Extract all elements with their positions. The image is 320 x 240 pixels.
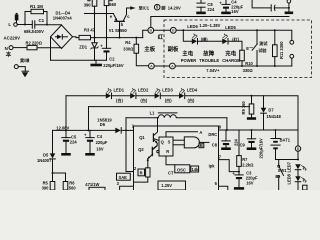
svg-text:LED6: LED6: [187, 24, 198, 29]
svg-text:220μF/16V: 220μF/16V: [103, 63, 124, 68]
resistor R5 390: [50, 182, 55, 191]
zener ZD1: [94, 38, 96, 43]
12V rail: [53, 129, 116, 131]
battery BAT1: [275, 130, 277, 138]
bridge rectifier D1-D4: [51, 25, 73, 49]
bridge plus to R3: [73, 36, 80, 39]
svg-text:L: L: [8, 22, 11, 27]
capacitor C2: [106, 14, 108, 49]
OSC block: [175, 165, 190, 173]
svg-text:(白): (白): [140, 97, 147, 103]
svg-text:试验: 试验: [258, 47, 267, 53]
AND gate: [184, 137, 199, 148]
capacitor C5 224: [65, 130, 67, 137]
svg-text:16V: 16V: [246, 181, 254, 186]
resistor R1 1M: [25, 12, 31, 25]
svg-text:B: B: [200, 143, 203, 148]
svg-text:B: B: [172, 29, 175, 33]
transistor V1 S8550: [115, 20, 125, 22]
svg-text:Ipk: Ipk: [209, 164, 216, 169]
svg-text:1.25V: 1.25V: [161, 183, 172, 188]
svg-text:D6: D6: [100, 122, 106, 127]
svg-text:390: 390: [42, 185, 50, 190]
LED string wire: [66, 95, 106, 97]
LED7: [295, 164, 301, 169]
svg-text:Q1: Q1: [139, 135, 145, 140]
svg-text:220μF/16V: 220μF/16V: [259, 138, 264, 159]
svg-text:CHARGE: CHARGE: [222, 58, 240, 63]
wire A-A: [154, 65, 169, 67]
node B left: [148, 27, 154, 33]
svg-text:LED4: LED4: [187, 88, 198, 93]
svg-text:E-: E-: [275, 174, 280, 179]
capacitor C4 220uF16V: [225, 0, 227, 4]
riser to L1 and pin2: [126, 118, 134, 172]
svg-text:1.20~1.38V: 1.20~1.38V: [199, 23, 220, 28]
svg-text:224: 224: [207, 7, 215, 12]
svg-text:E: E: [246, 46, 249, 51]
svg-text:LED1: LED1: [114, 88, 125, 93]
svg-text:(白): (白): [188, 97, 195, 103]
top right feed wire with series cap: [252, 0, 271, 8]
diode D5 1N4007: [52, 130, 54, 153]
battery to switch wire: [276, 159, 299, 161]
test switch E: [256, 30, 258, 44]
dashed panel outline: [164, 20, 312, 78]
svg-text:红: 红: [158, 33, 164, 41]
svg-text:R9 160: R9 160: [241, 101, 246, 115]
node B bottom right: [297, 130, 299, 146]
svg-text:471/1W: 471/1W: [85, 182, 99, 187]
node: riser to zener column: [94, 14, 96, 38]
LED8: [295, 176, 301, 181]
svg-text:16V: 16V: [231, 9, 239, 14]
svg-text:16V: 16V: [96, 147, 104, 152]
svg-text:DRC: DRC: [208, 132, 217, 137]
svg-text:R4: R4: [125, 40, 131, 45]
svg-text:A: A: [199, 130, 202, 135]
svg-text:C9: C9: [240, 142, 246, 147]
resistor 560 (top cut): [104, 0, 109, 6]
wire LED5 to R10: [228, 41, 242, 50]
resistor 390 (top cut): [92, 0, 97, 6]
terminal N: [9, 46, 13, 50]
svg-text:副板: 副板: [168, 45, 179, 53]
LED4 (white): [179, 93, 184, 99]
svg-text:224: 224: [70, 139, 78, 144]
svg-text:ZD1: ZD1: [79, 45, 87, 50]
1.25V reference box: [158, 181, 186, 190]
svg-text:故障: 故障: [203, 49, 214, 57]
svg-text:LED2: LED2: [138, 88, 149, 93]
LED string to right: [185, 96, 298, 130]
svg-text:12.08V: 12.08V: [56, 126, 69, 131]
svg-text:1N4007x4: 1N4007x4: [53, 15, 73, 20]
svg-text:R11 3300: R11 3300: [279, 41, 284, 59]
svg-text:R2 220Ω: R2 220Ω: [26, 40, 43, 45]
svg-text:CT: CT: [168, 170, 174, 175]
svg-text:R1 1M: R1 1M: [30, 4, 43, 9]
svg-text:(白): (白): [165, 97, 172, 103]
svg-text:SAE: SAE: [119, 175, 128, 180]
middle rail: [89, 106, 250, 108]
svg-text:1N4148: 1N4148: [266, 114, 281, 119]
switch SW1: [278, 160, 280, 166]
svg-text:C4: C4: [97, 134, 103, 139]
svg-text:LED3: LED3: [162, 88, 173, 93]
inductor L1: [126, 117, 158, 119]
SAE label box: [117, 173, 131, 180]
resistor R11 3300: [274, 30, 276, 45]
svg-text:脚: 脚: [161, 4, 165, 10]
svg-text:N: N: [5, 46, 8, 51]
panel A rail: [175, 65, 291, 67]
svg-text:390: 390: [84, 2, 92, 7]
svg-text:主电: 主电: [182, 49, 193, 57]
resistor R10 330: [240, 50, 245, 61]
rail riser: [88, 107, 90, 131]
wire B riser from rail end: [143, 30, 148, 37]
svg-text:7.04V+: 7.04V+: [206, 68, 220, 73]
capacitor C3 220uF16V: [238, 172, 240, 175]
wire from B up to top ground rail: [151, 17, 289, 28]
svg-text:330Ω: 330Ω: [243, 68, 254, 73]
svg-text:560: 560: [109, 2, 117, 7]
wire B-B: [154, 29, 171, 31]
flip flop box: [159, 137, 173, 156]
LED5 (red): [222, 39, 227, 45]
diode D6 1N5819: [115, 128, 121, 134]
svg-text:R7: R7: [242, 157, 248, 162]
node B right: [170, 27, 176, 33]
IC box: [134, 125, 219, 127]
svg-text:220μF: 220μF: [96, 140, 108, 145]
svg-text:C2: C2: [109, 56, 115, 61]
svg-text:R3 47: R3 47: [84, 27, 96, 32]
svg-text:V1 S8550: V1 S8550: [109, 28, 128, 33]
resistor R4 330: [135, 38, 137, 45]
svg-text:14.20V: 14.20V: [168, 5, 181, 10]
svg-text:D7: D7: [268, 108, 274, 113]
svg-text:LED7: LED7: [286, 161, 291, 172]
pin8 rail: [219, 129, 299, 131]
svg-text:14k: 14k: [192, 167, 200, 172]
capacitor C1: [31, 21, 33, 28]
LED1 (white): [106, 93, 111, 99]
capacitor C8 224: [200, 0, 202, 3]
node A left: [149, 63, 155, 69]
svg-text:TROUBLE: TROUBLE: [199, 58, 219, 63]
svg-text:Q2: Q2: [138, 147, 144, 152]
wire L to RC node: [17, 24, 32, 26]
resistor R2 220: [13, 47, 27, 49]
terminal E and chassis ground: [14, 65, 18, 69]
svg-text:POWER: POWER: [181, 58, 197, 63]
emitter wire: [84, 13, 113, 15]
resistor R7 2.2k: [238, 130, 240, 156]
svg-text:B: B: [150, 29, 153, 33]
resistor R9 160: [251, 96, 253, 104]
LED6 (green): [192, 39, 197, 45]
LED string riser: [65, 96, 67, 131]
LED6 drop: [183, 30, 192, 41]
svg-text:C1: C1: [39, 18, 45, 23]
svg-text:OSC: OSC: [177, 167, 186, 172]
L1 drop to pin8: [226, 118, 228, 130]
terminal at top edge: [288, 3, 290, 8]
svg-text:C8: C8: [212, 142, 218, 147]
panel top rail from B: [176, 30, 292, 40]
resistor R6 560: [53, 173, 66, 182]
internal resistor R: [138, 169, 145, 176]
svg-text:L1: L1: [150, 111, 156, 116]
svg-text:测试: 测试: [259, 40, 268, 46]
svg-text:AC220V: AC220V: [4, 36, 21, 41]
svg-text:本: 本: [6, 50, 12, 58]
svg-text:黄/绿: 黄/绿: [19, 57, 30, 63]
ground below: [288, 8, 290, 11]
svg-text:LED5: LED5: [225, 25, 236, 30]
svg-text:主板: 主板: [144, 45, 155, 53]
svg-text:(白): (白): [116, 97, 123, 103]
svg-text:LED8: LED8: [286, 173, 291, 184]
bridge minus to common: [50, 37, 52, 60]
svg-text:A: A: [150, 64, 153, 68]
node A right: [170, 63, 176, 69]
svg-text:330Ω: 330Ω: [123, 46, 134, 51]
svg-text:R: R: [166, 149, 169, 154]
svg-text:S: S: [168, 139, 171, 144]
S input from A line: [166, 132, 198, 137]
svg-text:BAT1: BAT1: [280, 138, 291, 143]
main rail after R3: [91, 37, 143, 39]
terminals right: [290, 40, 294, 44]
capacitor C8b 224: [225, 130, 227, 141]
terminal L: [14, 23, 18, 27]
corner resistor cut: [303, 185, 307, 190]
arrow: to IC1 pin5 14.20V: [130, 6, 135, 9]
svg-text:68kJ/400V: 68kJ/400V: [24, 29, 44, 34]
svg-text:至IC1: 至IC1: [139, 4, 150, 10]
svg-text:560: 560: [69, 185, 77, 190]
capacitor C9 220uF16V: [251, 130, 253, 139]
svg-text:224: 224: [233, 138, 238, 146]
common ground wire: [51, 59, 107, 61]
svg-text:2.2kΩ: 2.2kΩ: [242, 162, 254, 167]
svg-text:B: B: [297, 147, 300, 151]
resistor R3 47: [79, 35, 91, 39]
capacitor C4b 220uF16V: [89, 130, 91, 137]
svg-text:R10: R10: [245, 61, 253, 66]
svg-text:充电: 充电: [225, 49, 236, 57]
svg-text:R: R: [140, 170, 143, 175]
ground: [90, 64, 102, 67]
fuse above L: [15, 14, 19, 20]
svg-text:(绿): (绿): [201, 36, 208, 42]
svg-text:1N4007: 1N4007: [37, 158, 52, 163]
LED3 (white): [155, 93, 160, 99]
diode D7 1N4148: [263, 96, 265, 108]
LED2 (white): [130, 93, 135, 99]
svg-text:A: A: [171, 64, 174, 68]
base riser: [119, 22, 121, 38]
